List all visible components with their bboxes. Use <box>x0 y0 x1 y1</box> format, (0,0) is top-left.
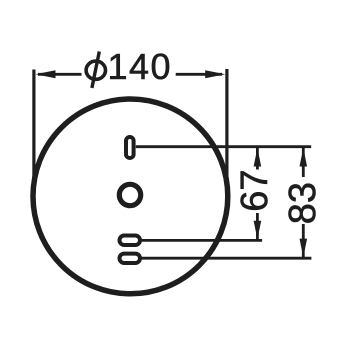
lower horizontal slot <box>120 254 141 263</box>
svg-text:83: 83 <box>282 182 324 224</box>
phi symbol ellipse <box>86 61 105 79</box>
dim 83 lower shaft <box>302 224 305 258</box>
dim 83 down arrowhead <box>300 239 308 258</box>
leader from top slot <box>136 145 311 148</box>
extension line left <box>32 70 35 197</box>
svg-text:67: 67 <box>234 170 276 212</box>
dimension line φ140 left segment <box>38 73 82 76</box>
arrowhead left (points left) <box>35 70 55 78</box>
upper horizontal slot <box>120 236 141 246</box>
arrowhead right (points right) <box>205 70 225 78</box>
dim 67 down arrowhead <box>254 221 262 240</box>
phi symbol slash <box>92 52 99 89</box>
leader from lower slot <box>142 257 312 260</box>
center hole circle <box>119 184 140 205</box>
dim 67 upper shaft <box>256 147 259 169</box>
dim 83 up arrowhead <box>300 148 308 167</box>
dim 83 upper shaft <box>302 147 305 177</box>
top slot (vertical capsule) <box>126 137 134 158</box>
dimension line φ140 right segment <box>176 73 222 76</box>
fixture outline circle (φ140 plate) <box>33 99 228 294</box>
leader from upper slot <box>142 239 263 242</box>
dim 67 up arrowhead <box>254 148 262 167</box>
svg-text:140: 140 <box>108 46 173 87</box>
extension line right <box>225 69 228 196</box>
dim 67 lower shaft <box>256 213 259 240</box>
